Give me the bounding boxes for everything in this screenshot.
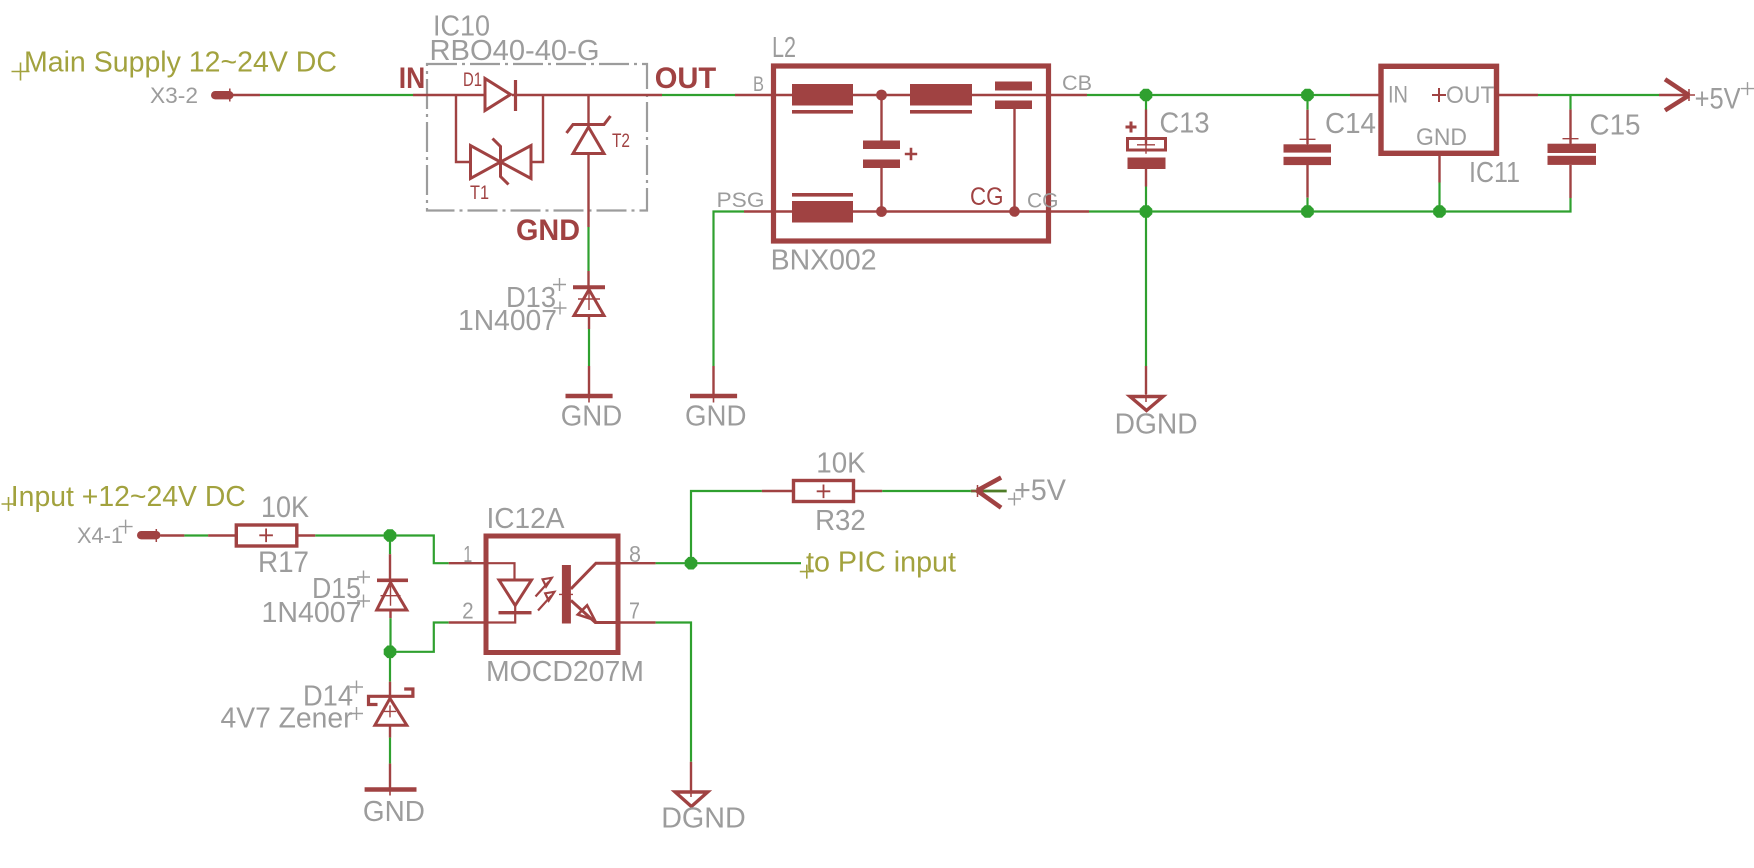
wire OUT to +5V (1538, 94, 1659, 96)
wire C13 junction to DGND (1145, 212, 1147, 367)
wire junction 2 to IC12A pin 2 (390, 623, 449, 652)
junction node CB C13 (1140, 89, 1153, 102)
L2 inductor top-left (792, 84, 853, 106)
label to PIC input (800, 565, 814, 579)
optocoupler IC12A box (486, 536, 618, 653)
IC11 OUT pin wire (1497, 94, 1539, 96)
filter L2 BNX002 box (774, 66, 1049, 241)
svg-text:+5V: +5V (1014, 474, 1066, 507)
wire R32 to +5V (882, 490, 971, 492)
svg-text:BNX002: BNX002 (771, 245, 877, 277)
wire pin 7 to DGND (656, 623, 691, 762)
wire CB to IC11 IN (1087, 94, 1350, 96)
svg-text:D1: D1 (463, 70, 482, 91)
wire X3-2 to IC10 IN (260, 94, 413, 96)
junction node R17 D15 (384, 529, 397, 542)
L2 junction node top (876, 90, 887, 101)
svg-text:CG: CG (1027, 190, 1059, 213)
svg-text:1N4007: 1N4007 (458, 305, 557, 337)
svg-text:X4-1: X4-1 (77, 523, 123, 548)
IC12A internal LED (489, 563, 515, 580)
junction node IC11 GND (1433, 205, 1446, 218)
svg-text:B: B (753, 73, 764, 96)
junction node D15 D14 (384, 646, 397, 659)
wire R17 to junction (315, 534, 390, 536)
ground symbol GND under D14 (365, 787, 417, 791)
svg-text:7: 7 (629, 598, 640, 624)
voltage regulator IC11 box (1381, 66, 1497, 153)
TVS diode T2 (587, 95, 589, 125)
svg-text:OUT: OUT (655, 62, 717, 95)
IC12A light arrows (536, 578, 555, 611)
svg-text:DGND: DGND (1115, 409, 1198, 441)
supply symbol +5V bottom (971, 490, 1007, 493)
wire X4-1 to R17 (184, 534, 208, 536)
junction node C14 bottom (1301, 205, 1314, 218)
svg-text:C15: C15 (1590, 110, 1641, 142)
IC11 GND pin wire (1438, 156, 1440, 183)
svg-text:R32: R32 (815, 505, 866, 537)
svg-text:to PIC input: to PIC input (806, 547, 956, 579)
svg-text:CB: CB (1062, 72, 1092, 95)
resistor R32 (794, 481, 854, 502)
bottom ground rail wires (1089, 210, 1146, 212)
IC12A pin 7 wire (618, 621, 656, 623)
TVS T1 branch wires (456, 95, 471, 162)
svg-text:CG: CG (970, 183, 1004, 211)
svg-text:IC12A: IC12A (487, 503, 566, 535)
svg-text:IN: IN (399, 62, 426, 95)
svg-text:1N4007: 1N4007 (262, 597, 362, 629)
wire IN pin to D1 (413, 94, 485, 96)
capacitor C13 (1145, 95, 1147, 110)
svg-text:GND: GND (363, 796, 425, 828)
junction node C14 (1301, 89, 1314, 102)
capacitor C15 (1569, 95, 1571, 109)
svg-text:Main Supply 12~24V DC: Main Supply 12~24V DC (24, 47, 337, 79)
L2 pin CB wire (1051, 94, 1087, 96)
wire D15 to junction 2 (389, 618, 391, 652)
L2 pin PSG wire (744, 210, 771, 212)
svg-text:T2: T2 (612, 131, 630, 152)
svg-text:IN: IN (1388, 81, 1408, 108)
svg-text:C14: C14 (1325, 108, 1376, 140)
svg-text:T1: T1 (470, 183, 489, 204)
svg-text:R17: R17 (258, 546, 309, 579)
svg-text:X3-2: X3-2 (150, 83, 198, 108)
L2 internal capacitor (880, 95, 882, 141)
IC12A phototransistor (562, 565, 571, 624)
L2 pin B wire (735, 94, 771, 96)
svg-text:RBO40-40-G: RBO40-40-G (430, 35, 600, 67)
diode D15 1N4007 (389, 536, 391, 555)
svg-text:+5V: +5V (1695, 83, 1741, 116)
svg-text:PSG: PSG (717, 189, 765, 212)
L2 junction node bottom right (1009, 206, 1020, 217)
diode D1 (485, 79, 511, 111)
svg-text:4V7 Zener: 4V7 Zener (221, 703, 353, 735)
svg-text:L2: L2 (772, 32, 796, 64)
svg-text:10K: 10K (261, 491, 309, 524)
ground symbol GND under D13 (566, 394, 613, 398)
label Input +12~24V DC (2, 497, 16, 511)
TVS diode T1 (471, 146, 501, 179)
IC12A pin 8 wire (618, 562, 656, 564)
svg-text:1: 1 (463, 541, 472, 567)
L2 feed-through capacitor (995, 82, 1032, 91)
svg-text:8: 8 (629, 541, 641, 567)
L2 pin CG right wire (1051, 210, 1089, 212)
svg-text:GND: GND (516, 214, 580, 247)
label Main Supply 12~24V DC (12, 63, 30, 81)
junction node C13 bottom (1140, 205, 1153, 218)
IC10 dashed outline box (427, 64, 647, 211)
L2 inductor top-right (910, 84, 972, 106)
wire PSG to GND (714, 212, 745, 367)
L2 internal bottom line (774, 210, 1049, 212)
wire junction to R32 (691, 491, 762, 563)
wire junction to IC12A pin 1 (390, 536, 449, 564)
svg-text:GND: GND (1416, 124, 1467, 151)
svg-text:10K: 10K (816, 448, 866, 480)
supply symbol +5V top (1659, 94, 1689, 97)
wire OUT to L2 B pin (662, 94, 735, 96)
digital ground symbol DGND top (1130, 397, 1163, 411)
ground symbol GND under PSG (690, 394, 737, 398)
L2 junction node bottom middle (876, 206, 887, 217)
svg-text:DGND: DGND (661, 803, 746, 835)
wire D13 to GND (588, 329, 590, 366)
resistor R17 (236, 525, 296, 546)
svg-text:2: 2 (462, 598, 474, 624)
L2 internal top line (774, 94, 1049, 96)
IC11 origin cross (1432, 88, 1446, 102)
capacitor C14 (1306, 95, 1308, 110)
junction node pin8 (685, 557, 698, 570)
L2 inductor bottom (792, 201, 853, 223)
svg-text:Input +12~24V DC: Input +12~24V DC (11, 481, 246, 513)
wire D14 to GND (389, 738, 391, 764)
wire to PIC input (691, 562, 801, 564)
wire IC10 GND pin to D13 (587, 227, 589, 271)
svg-text:MOCD207M: MOCD207M (486, 656, 644, 688)
svg-text:GND: GND (685, 401, 747, 433)
svg-text:C13: C13 (1160, 108, 1210, 140)
zener diode D14 4V7 (389, 652, 391, 682)
svg-text:IC11: IC11 (1469, 157, 1520, 189)
diode D13 1N4007 (573, 285, 605, 289)
svg-text:GND: GND (561, 401, 623, 433)
svg-text:OUT: OUT (1446, 82, 1495, 109)
digital ground symbol DGND bottom (675, 792, 708, 807)
